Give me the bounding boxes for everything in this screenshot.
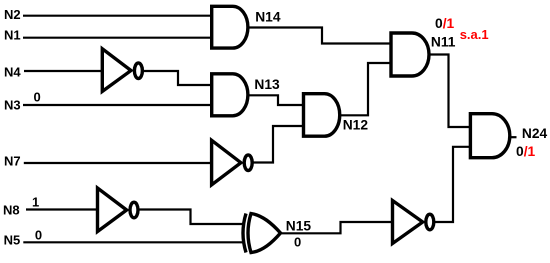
inverter U2 bubble: [244, 155, 252, 171]
wire N12 out to N11 lower input: [340, 63, 391, 115]
wire N5 to XOR N15: [23, 241, 243, 243]
and-gate N14: [212, 6, 248, 48]
svg-text:1: 1: [32, 194, 39, 209]
and-gate N11: [391, 33, 429, 76]
and-gate N12: [304, 94, 340, 137]
wire N14 out to N11 upper input: [248, 28, 391, 44]
svg-text:N1: N1: [4, 28, 21, 43]
inverter U3 (N8) triangle: [98, 188, 127, 232]
and-gate N24: [470, 114, 509, 158]
xor-gate N15 back arc: [243, 214, 246, 253]
svg-text:0/1: 0/1: [516, 144, 536, 159]
wire N1 to N14: [23, 37, 212, 39]
inverter U1 (N4) triangle: [102, 49, 131, 92]
svg-text:0: 0: [35, 228, 42, 243]
svg-text:N15: N15: [286, 218, 312, 233]
wire N8 to inverter: [26, 208, 98, 210]
svg-text:N4: N4: [4, 65, 21, 80]
svg-text:0: 0: [294, 234, 301, 249]
svg-text:s.a.1: s.a.1: [460, 27, 489, 42]
and-gate N13: [212, 74, 248, 116]
wire N11 out to N24 upper input: [429, 55, 471, 128]
wire N4 to inverter: [24, 70, 102, 72]
inverter U4 bubble: [426, 214, 434, 230]
inverter U2 (N7) triangle: [212, 140, 241, 185]
svg-text:N24: N24: [522, 126, 548, 141]
svg-text:N13: N13: [254, 77, 280, 92]
svg-text:N2: N2: [4, 7, 21, 22]
svg-text:N14: N14: [255, 9, 281, 24]
svg-text:N5: N5: [4, 233, 21, 248]
svg-text:N12: N12: [343, 118, 369, 133]
svg-text:N3: N3: [4, 98, 21, 113]
svg-text:N7: N7: [4, 154, 21, 169]
wire inverter U4 out to N24 lower input: [434, 147, 470, 222]
wire N7 to inverter: [24, 162, 212, 164]
wire inverter U2 out to N12 lower input: [253, 126, 304, 163]
inverter U1 bubble: [134, 63, 142, 79]
svg-text:N11: N11: [431, 34, 456, 49]
wire inverter U3 out to XOR upper input: [139, 210, 244, 225]
wire N13 out to N12 upper input: [249, 95, 304, 105]
wire N24 output stub: [510, 136, 517, 138]
wire inverter U1 out to N13 upper input: [142, 71, 211, 85]
wire N3 to N13: [23, 104, 212, 106]
wire N15 out to inverter U4: [280, 222, 393, 233]
svg-text:N8: N8: [3, 202, 20, 217]
inverter U4 triangle: [393, 201, 423, 244]
svg-text:0/1: 0/1: [435, 16, 455, 31]
inverter U3 bubble: [130, 202, 138, 218]
svg-text:0: 0: [34, 89, 41, 104]
wire N2 to N14: [23, 15, 212, 17]
xor-gate N15 body: [248, 214, 281, 253]
